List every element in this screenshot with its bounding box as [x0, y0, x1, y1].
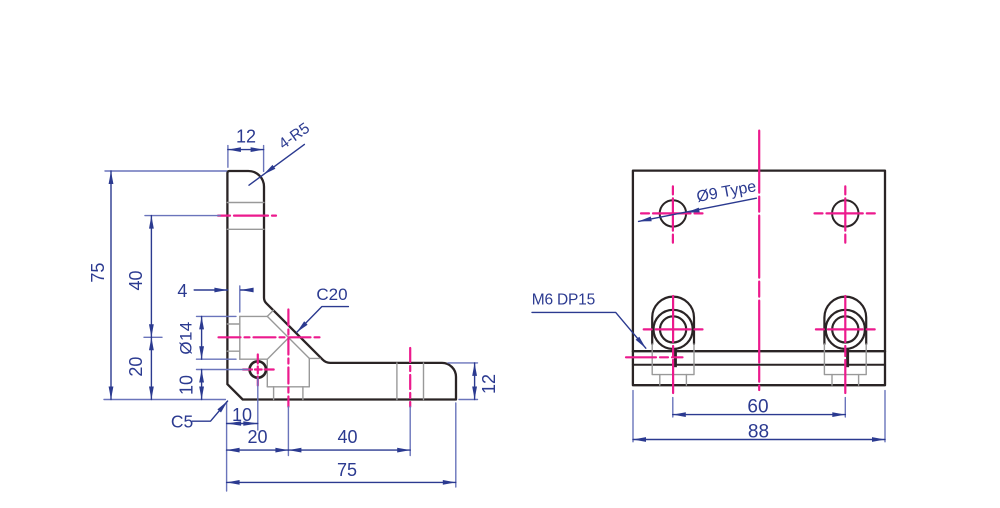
witness 12right top	[448, 362, 478, 364]
arrow C5	[217, 401, 227, 413]
arrow 12r top	[472, 363, 477, 376]
top hole left	[660, 200, 686, 226]
far hole left edge	[396, 363, 398, 400]
svg-text:C20: C20	[316, 285, 347, 304]
centerline small hole vertical	[257, 355, 259, 386]
arrow 75h left	[227, 480, 240, 485]
witness corner center vertical	[287, 407, 289, 456]
arrow 4 left	[241, 288, 254, 293]
upper hole edge line (bottom)	[227, 228, 264, 230]
small hole circle	[250, 361, 266, 377]
svg-text:12: 12	[479, 374, 499, 394]
svg-text:20: 20	[247, 427, 267, 447]
bottom hole right: inner circle	[832, 316, 858, 342]
witness 88 left	[632, 391, 634, 442]
arrowheads right view	[633, 208, 885, 442]
centerline bottom hole right h	[816, 328, 875, 330]
centerline top hole right h	[815, 212, 875, 214]
arrowheads left view	[109, 147, 477, 485]
svg-text:4: 4	[177, 281, 187, 301]
witness line small hole center	[197, 369, 249, 371]
dimension 12 right line	[474, 363, 476, 400]
svg-text:40: 40	[337, 427, 357, 447]
svg-text:60: 60	[747, 397, 768, 418]
leader dia9 Type	[639, 198, 757, 221]
arrow 4 right	[214, 288, 227, 293]
arrow dia9 at end	[639, 217, 652, 222]
arrow 20 top	[149, 337, 154, 350]
dimension 40 line	[150, 216, 152, 338]
svg-text:88: 88	[748, 421, 769, 442]
dimension 4 lines	[194, 289, 248, 291]
svg-text:C5: C5	[171, 411, 193, 431]
corner hole small bore top edge	[227, 323, 239, 325]
arrow 60 right	[832, 412, 845, 417]
arrow 40h left	[288, 448, 301, 453]
arrow 40 bottom	[149, 324, 154, 337]
arrow 20 bottom	[149, 387, 154, 400]
bottom hole right: bar	[846, 349, 849, 368]
leg top surface line	[633, 350, 885, 352]
leader 4-R5	[249, 144, 304, 185]
arrow 75 top	[109, 171, 114, 184]
arrow 20h left	[227, 448, 240, 453]
witness 60 left	[672, 398, 674, 417]
arrow 40 top	[149, 216, 154, 229]
dimension 40 bottom line	[288, 449, 410, 451]
svg-text:40: 40	[126, 270, 146, 290]
cylinder intersection diagonal	[267, 316, 309, 358]
bottom hole left: lower boss	[660, 375, 687, 386]
arrow 88 right	[872, 437, 885, 442]
arrow 10h right	[243, 421, 257, 426]
centerline corner horizontal	[219, 336, 320, 338]
svg-text:12: 12	[236, 127, 256, 147]
counterbore step face	[239, 316, 241, 359]
arrow 10v bottom	[199, 387, 204, 400]
leader M6 DP15	[532, 312, 646, 348]
arrow 10h left	[227, 421, 242, 426]
arrow 12 left	[228, 147, 241, 152]
svg-text:20: 20	[126, 357, 146, 377]
centerline upper hole	[218, 215, 276, 217]
vertical bore left wall	[266, 359, 268, 387]
center line vertical	[758, 131, 760, 390]
witness 12dim right	[263, 146, 265, 172]
arrow d14 bottom	[199, 346, 204, 359]
leg lower line	[633, 364, 885, 366]
witness line step vertical	[239, 286, 241, 312]
spotface stub to chamfer	[309, 357, 320, 359]
bottom hole right: boss hidden sides	[824, 344, 866, 375]
witness line cbore top	[197, 315, 237, 317]
bottom hole right: lower boss	[832, 375, 859, 386]
dimension 60 line	[673, 414, 846, 416]
bottom hole left: bar	[674, 349, 677, 368]
far hole right edge	[423, 363, 425, 400]
svg-text:Ø14: Ø14	[177, 321, 196, 354]
dimension dia14 line	[201, 316, 203, 359]
dimension 10 vertical line	[201, 370, 203, 400]
witness 88 right	[884, 391, 886, 442]
bracket outline (L-shape side view)	[227, 171, 456, 400]
centerline corner vertical	[287, 310, 289, 407]
dimension 10 bottom line	[227, 423, 258, 425]
witness bottom left vertical	[226, 402, 228, 491]
arrow dia9 on circle	[687, 208, 700, 213]
svg-text:75: 75	[337, 460, 357, 480]
centerline M6 depth	[626, 356, 683, 358]
bottom hole left: inner circle	[660, 316, 686, 342]
centerline small hole horizontal	[243, 368, 274, 370]
svg-text:M6 DP15: M6 DP15	[532, 292, 595, 309]
boss right edge	[302, 387, 304, 400]
witness line upper hole center	[145, 215, 220, 217]
arrow C20	[297, 321, 308, 332]
arrow 4-R5	[264, 165, 276, 175]
bottom hole right: middle circle	[826, 310, 865, 349]
dimension 75 bottom line	[227, 481, 456, 483]
centerline bottom hole left h	[644, 328, 703, 330]
witness far hole vertical	[409, 407, 411, 456]
arrow 88 left	[633, 437, 646, 442]
svg-text:10: 10	[177, 375, 197, 395]
vertical bore right wall	[308, 358, 310, 386]
dimension 88 line	[633, 439, 885, 441]
texts left view	[88, 120, 499, 480]
bottom hole left: boss hidden sides	[652, 344, 694, 375]
centerline top hole right v	[844, 186, 846, 242]
arrow 75 bottom	[109, 387, 114, 400]
upper hole edge line (top)	[227, 202, 264, 204]
arrow 12 right	[251, 147, 264, 152]
arrow 10v top	[199, 370, 204, 383]
plate outline	[633, 171, 885, 386]
witness 60 right	[844, 398, 846, 417]
witness small hole vertical	[257, 378, 259, 430]
corner hole counterbore bottom edge	[240, 358, 267, 360]
texts right view	[532, 178, 769, 442]
bottom hole right: boss arc	[824, 297, 866, 344]
centerline bottom hole right v	[844, 296, 846, 393]
arrow M6	[636, 337, 646, 349]
dimension 20 line	[150, 337, 152, 399]
svg-text:10: 10	[232, 405, 252, 425]
arrow 40h right	[397, 448, 410, 453]
centerline far hole vertical	[409, 348, 411, 407]
arrow 12r bottom	[472, 387, 477, 400]
top hole right	[832, 200, 858, 226]
drill cone left flank	[267, 338, 288, 359]
centerline top hole left h	[641, 212, 703, 214]
corner hole counterbore top edge	[240, 315, 267, 317]
witness 12right bottom	[459, 399, 478, 401]
arrow d14 top	[199, 316, 204, 329]
bottom hole left: boss arc	[652, 297, 694, 344]
dimension 75 left line	[110, 171, 112, 400]
witness line cbore bottom	[197, 358, 237, 360]
boss left edge	[273, 387, 275, 400]
witness line bottom edge	[104, 399, 225, 401]
vertical bore bottom	[267, 386, 309, 388]
leader C5	[192, 401, 227, 421]
centerline bottom hole left v	[672, 296, 674, 393]
centerline top hole left v	[672, 186, 674, 242]
chamfer stub diagonal	[267, 310, 273, 316]
bottom hole left: middle circle	[654, 310, 693, 349]
svg-text:75: 75	[88, 263, 108, 283]
leader C20	[297, 307, 349, 333]
witness line top edge	[105, 170, 227, 172]
witness right end vertical	[455, 403, 457, 487]
witness line corner center	[144, 336, 162, 338]
arrow 75h right	[443, 480, 456, 485]
arrow 20h right	[275, 448, 288, 453]
dimension 12 top line	[228, 149, 264, 151]
arrow 60 left	[673, 412, 686, 417]
witness 12dim left	[227, 146, 229, 168]
dimension 20 bottom line	[227, 449, 289, 451]
corner hole small bore bottom edge	[227, 350, 239, 352]
